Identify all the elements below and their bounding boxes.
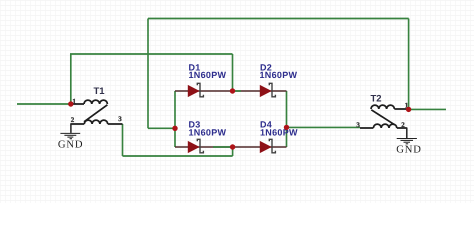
diode D4 (1N60PW) symbol bbox=[260, 139, 275, 153]
diode D2 (1N60PW) symbol bbox=[260, 83, 275, 97]
svg-text:1N60PW: 1N60PW bbox=[260, 70, 298, 80]
svg-text:GND: GND bbox=[58, 140, 84, 151]
wire: stub to bridge left-middle bbox=[148, 127, 175, 129]
wire: horizontal y=54 to bridge top bbox=[70, 53, 233, 55]
svg-text:1N60PW: 1N60PW bbox=[260, 128, 298, 138]
diode D3 (1N60PW) symbol bbox=[188, 139, 203, 153]
wire: top loop left vertical down to bridge left-middle bbox=[147, 19, 149, 129]
svg-text:3: 3 bbox=[356, 121, 360, 129]
wire: green segment right of top-middle junction bbox=[233, 90, 241, 92]
wire: right output lead bbox=[409, 108, 446, 110]
wire: vertical from T1 pin1 up bbox=[70, 54, 72, 104]
svg-text:3: 3 bbox=[118, 115, 122, 123]
wire: bridge right edge bbox=[286, 91, 288, 147]
svg-text:GND: GND bbox=[396, 145, 422, 156]
ground symbol below T2 pin2 bbox=[397, 128, 417, 144]
junction dot at T2 pin1 bbox=[406, 107, 411, 112]
junction dot bridge bottom-middle bbox=[230, 144, 235, 149]
transformer T1 (tapped inductor) bbox=[71, 100, 123, 124]
junction dot bridge top-middle bbox=[230, 88, 235, 93]
svg-text:1N60PW: 1N60PW bbox=[189, 128, 227, 138]
wire: vertical down to bridge top-middle bbox=[232, 54, 234, 91]
svg-text:T1: T1 bbox=[94, 86, 106, 97]
svg-text:1N60PW: 1N60PW bbox=[189, 70, 227, 80]
junction dot bridge right-middle bbox=[284, 125, 289, 130]
ground symbol below T1 pin2 bbox=[60, 124, 80, 139]
wire: top loop right vertical down to T2 pin1 bbox=[408, 19, 410, 110]
wire: green segment left of bottom-middle junction bbox=[213, 146, 233, 148]
wire: bridge right-middle to T2 pin3 bbox=[287, 126, 361, 128]
junction dot bridge left-middle bbox=[172, 126, 177, 131]
wire: left input lead bbox=[17, 103, 70, 105]
svg-text:T2: T2 bbox=[371, 94, 382, 105]
wire: bridge left edge bbox=[174, 91, 176, 147]
transformer T2 (tapped inductor) bbox=[360, 105, 409, 128]
junction dot at T1 pin1 bbox=[68, 101, 73, 106]
svg-text:2: 2 bbox=[401, 121, 405, 129]
bridge top row interconnect bbox=[175, 90, 287, 92]
wire: top loop horizontal bbox=[148, 18, 409, 20]
wire: T1 pin3 down bbox=[122, 124, 124, 156]
wire: bottom horizontal bbox=[123, 155, 233, 157]
wire: up to bridge bottom-middle bbox=[232, 147, 234, 156]
bridge bottom row interconnect bbox=[175, 146, 287, 148]
diode D1 (1N60PW) symbol bbox=[188, 83, 203, 97]
svg-text:2: 2 bbox=[71, 116, 75, 124]
